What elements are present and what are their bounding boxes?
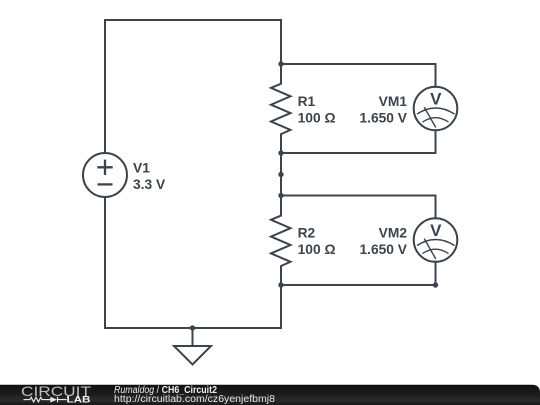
- wire VM1 bottom lead: [281, 130, 436, 153]
- CircuitLab logo resistor and diode symbol: [24, 397, 67, 403]
- node junction at ground: [190, 325, 195, 330]
- wire right rail upper segment: [280, 20, 282, 64]
- svg-text:3.3 V: 3.3 V: [133, 177, 166, 192]
- svg-text:V1: V1: [133, 160, 150, 175]
- svg-text:100 Ω: 100 Ω: [298, 110, 336, 125]
- svg-text:VM2: VM2: [379, 225, 408, 240]
- svg-text:1.650 V: 1.650 V: [359, 242, 407, 257]
- node junction middle between R1 and R2: [278, 172, 283, 177]
- label VM1 value: [359, 94, 407, 126]
- voltmeter VM2: [414, 218, 458, 262]
- wire top rail: [105, 19, 281, 21]
- svg-text:100 Ω: 100 Ω: [298, 242, 336, 257]
- ground: [174, 328, 211, 365]
- label VM2 value: [359, 225, 407, 257]
- wire VM2 bottom lead: [281, 262, 436, 285]
- wire left rail bottom (V1 negative to bottom rail): [104, 197, 106, 328]
- svg-text:R2: R2: [298, 225, 316, 240]
- wire VM2 top lead: [281, 196, 436, 219]
- label R2 value: [298, 225, 336, 257]
- svg-text:VM1: VM1: [379, 94, 408, 109]
- resistor R1: [271, 64, 291, 153]
- wire bottom rail: [105, 327, 281, 329]
- svg-text:LAB: LAB: [67, 395, 91, 405]
- svg-text:http://circuitlab.com/cz6yenje: http://circuitlab.com/cz6yenjefbmj8: [114, 394, 275, 405]
- node junction at R1 bottom: [278, 150, 283, 155]
- wire below R2 to bottom rail: [280, 285, 282, 328]
- voltage source V1: [83, 153, 127, 197]
- wire between R1 bottom and R2 top: [280, 153, 282, 196]
- node junction at VM2 bottom: [433, 282, 438, 287]
- svg-text:V: V: [430, 90, 442, 109]
- node junction at R1 top: [278, 61, 283, 66]
- svg-text:V: V: [430, 221, 442, 240]
- CircuitLab logo diode triangle: [50, 397, 57, 403]
- node junction at R2 top: [278, 193, 283, 198]
- wire left rail top (V1 positive to top-left corner): [104, 20, 106, 153]
- wire VM1 top lead: [281, 64, 436, 87]
- label V1 value: [133, 160, 166, 192]
- svg-text:1.650 V: 1.650 V: [359, 110, 407, 125]
- svg-text:R1: R1: [298, 94, 316, 109]
- node junction at R2 bottom: [278, 282, 283, 287]
- voltmeter VM1: [414, 87, 458, 131]
- footer bar: [0, 385, 540, 405]
- resistor R2: [271, 196, 291, 286]
- label R1 value: [298, 94, 336, 126]
